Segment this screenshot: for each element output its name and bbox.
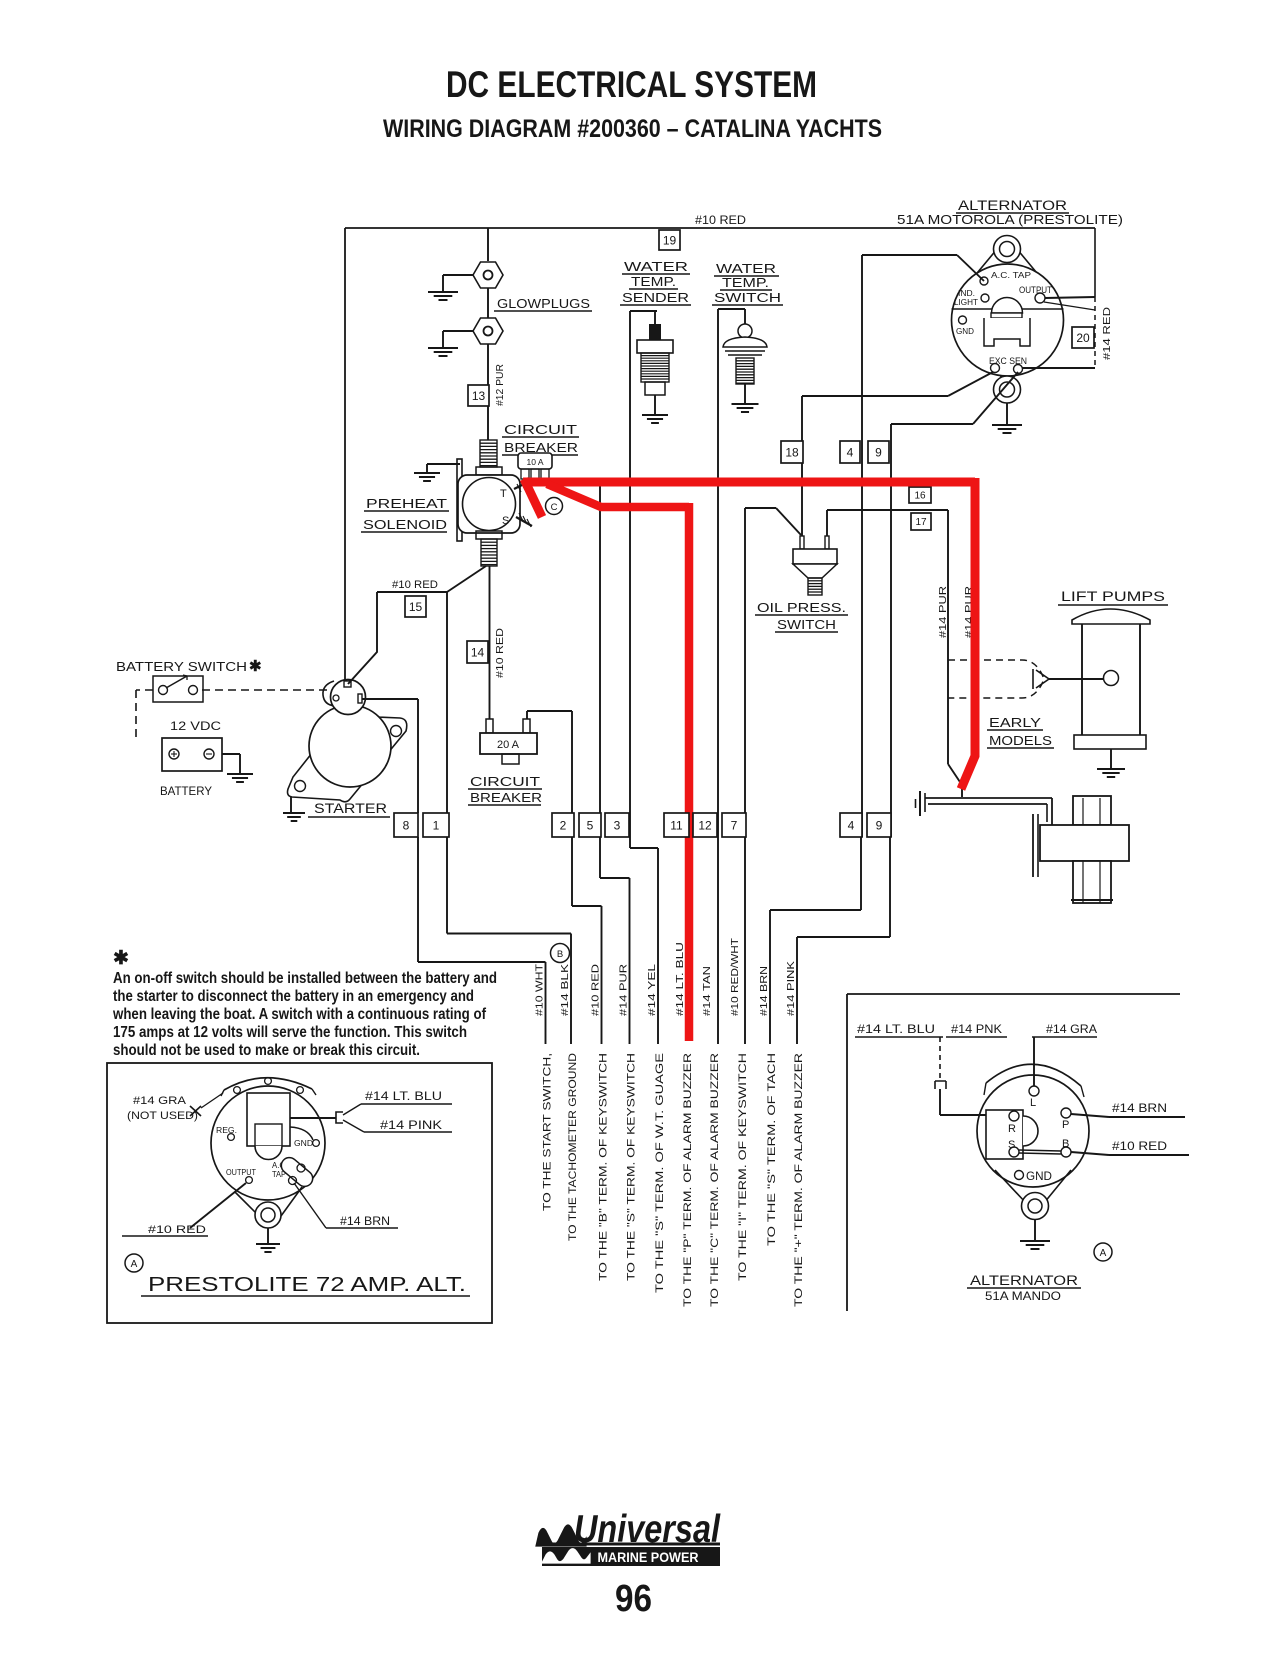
svg-text:#14 RED: #14 RED [1101, 306, 1113, 360]
svg-text:20 A: 20 A [497, 739, 520, 751]
svg-text:SOLENOID: SOLENOID [363, 517, 447, 532]
svg-text:#14 GRA: #14 GRA [133, 1095, 187, 1107]
svg-text:1: 1 [433, 818, 440, 832]
svg-text:GND: GND [1026, 1169, 1052, 1183]
svg-text:3: 3 [614, 818, 621, 832]
svg-text:#10 RED: #10 RED [392, 579, 438, 591]
svg-text:#10 RED: #10 RED [1112, 1139, 1167, 1153]
svg-text:TO THE "S" TERM. OF W.T. GUAGE: TO THE "S" TERM. OF W.T. GUAGE [654, 1053, 666, 1293]
svg-text:4: 4 [847, 445, 854, 459]
svg-text:S: S [502, 515, 509, 527]
svg-text:PRESTOLITE 72 AMP. ALT.: PRESTOLITE 72 AMP. ALT. [148, 1274, 466, 1296]
svg-text:OIL PRESS.: OIL PRESS. [757, 600, 846, 615]
svg-text:LIGHT: LIGHT [954, 298, 978, 307]
svg-text:ALTERNATOR: ALTERNATOR [970, 1273, 1078, 1288]
svg-text:the starter to disconnect the: the starter to disconnect the battery in… [113, 988, 474, 1005]
svg-text:TEMP.: TEMP. [722, 275, 769, 290]
svg-text:51A MOTOROLA (PRESTOLITE): 51A MOTOROLA (PRESTOLITE) [897, 213, 1123, 227]
svg-text:#14 BRN: #14 BRN [758, 966, 770, 1016]
svg-text:#12 PUR: #12 PUR [494, 364, 506, 406]
svg-text:#14 PNK: #14 PNK [951, 1022, 1002, 1036]
svg-text:#10 RED: #10 RED [590, 963, 602, 1016]
svg-text:✱: ✱ [113, 948, 129, 969]
svg-text:TO THE "I" TERM. OF KEYSWITCH: TO THE "I" TERM. OF KEYSWITCH [737, 1053, 749, 1281]
svg-text:SWITCH: SWITCH [714, 290, 781, 305]
svg-text:B: B [557, 949, 563, 960]
svg-text:#14 BRN: #14 BRN [1112, 1101, 1167, 1115]
svg-text:10 A: 10 A [526, 457, 543, 467]
svg-text:OUTPUT: OUTPUT [226, 1167, 256, 1177]
svg-text:13: 13 [472, 389, 486, 403]
svg-text:11: 11 [670, 818, 683, 832]
svg-text:GND: GND [294, 1138, 313, 1148]
svg-text:TO THE "B" TERM. OF KEYSWITCH: TO THE "B" TERM. OF KEYSWITCH [598, 1053, 610, 1281]
svg-text:S: S [1008, 1139, 1015, 1151]
svg-text:LIFT PUMPS: LIFT PUMPS [1061, 589, 1165, 604]
svg-text:A: A [1100, 1248, 1107, 1259]
svg-text:P: P [1062, 1119, 1069, 1131]
svg-text:14: 14 [471, 645, 485, 659]
svg-text:#14 YEL: #14 YEL [646, 964, 658, 1016]
svg-text:DC ELECTRICAL SYSTEM: DC ELECTRICAL SYSTEM [446, 64, 817, 105]
svg-text:9: 9 [875, 445, 882, 459]
svg-text:CIRCUIT: CIRCUIT [470, 774, 540, 789]
svg-text:REG.: REG. [216, 1125, 237, 1135]
svg-text:4: 4 [848, 818, 855, 832]
svg-text:2: 2 [560, 818, 567, 832]
svg-text:20: 20 [1076, 331, 1090, 345]
svg-text:7: 7 [731, 818, 738, 832]
svg-text:TO THE "+" TERM. OF ALARM BUZZ: TO THE "+" TERM. OF ALARM BUZZER [793, 1053, 805, 1307]
svg-text:EARLY: EARLY [989, 715, 1041, 730]
svg-text:TO THE START SWITCH,: TO THE START SWITCH, [542, 1053, 554, 1211]
svg-text:OUTPUT: OUTPUT [1019, 285, 1052, 295]
svg-text:EXC SEN: EXC SEN [989, 356, 1027, 366]
svg-text:#14 TAN: #14 TAN [701, 966, 713, 1016]
svg-text:12: 12 [698, 818, 712, 832]
svg-text:when leaving the boat. A switc: when leaving the boat. A switch with a c… [112, 1006, 487, 1023]
svg-text:9: 9 [876, 818, 883, 832]
svg-text:15: 15 [409, 600, 423, 614]
svg-text:ALTERNATOR: ALTERNATOR [958, 198, 1067, 213]
svg-text:19: 19 [663, 233, 677, 247]
svg-text:WATER: WATER [624, 259, 688, 274]
svg-text:18: 18 [785, 445, 799, 459]
svg-text:#14 BRN: #14 BRN [340, 1214, 390, 1228]
svg-text:SWITCH: SWITCH [777, 617, 836, 632]
svg-text:GLOWPLUGS: GLOWPLUGS [497, 296, 590, 311]
svg-text:B: B [1062, 1138, 1069, 1150]
svg-text:WIRING DIAGRAM #200360 – CATAL: WIRING DIAGRAM #200360 – CATALINA YACHTS [383, 115, 882, 143]
svg-text:#14 PINK: #14 PINK [380, 1118, 442, 1132]
svg-text:#14 LT. BLU: #14 LT. BLU [365, 1089, 442, 1103]
svg-text:GND: GND [956, 326, 974, 336]
svg-text:L: L [1030, 1097, 1036, 1109]
svg-text:#14 LT. BLU: #14 LT. BLU [857, 1022, 935, 1036]
svg-text:#10 RED: #10 RED [148, 1224, 206, 1236]
svg-text:#10 RED/WHT: #10 RED/WHT [729, 937, 741, 1016]
svg-text:TO THE "S" TERM. OF TACH: TO THE "S" TERM. OF TACH [766, 1053, 778, 1246]
svg-text:Universal: Universal [574, 1508, 721, 1551]
svg-text:#14 BLK: #14 BLK [559, 964, 571, 1016]
svg-text:TEMP.: TEMP. [631, 274, 676, 289]
svg-text:An on-off switch should be ins: An on-off switch should be installed bet… [113, 970, 497, 987]
svg-text:R: R [1008, 1123, 1016, 1135]
svg-text:TO THE TACHOMETER GROUND: TO THE TACHOMETER GROUND [567, 1053, 579, 1241]
svg-text:✱: ✱ [249, 658, 262, 675]
svg-text:BATTERY SWITCH: BATTERY SWITCH [116, 659, 247, 674]
svg-text:PREHEAT: PREHEAT [366, 496, 447, 511]
svg-text:175 amps at 12 volts will serv: 175 amps at 12 volts will serve the func… [113, 1024, 467, 1041]
svg-text:BREAKER: BREAKER [470, 790, 542, 805]
svg-text:STARTER: STARTER [314, 800, 387, 816]
svg-text:BATTERY: BATTERY [160, 784, 212, 798]
svg-text:#10 WHT: #10 WHT [534, 963, 546, 1016]
svg-text:TO THE "S" TERM. OF KEYSWITCH: TO THE "S" TERM. OF KEYSWITCH [626, 1053, 638, 1281]
svg-text:17: 17 [915, 517, 927, 528]
svg-text:CIRCUIT: CIRCUIT [504, 422, 577, 437]
svg-text:SENDER: SENDER [622, 290, 689, 305]
svg-text:should not be used to make or: should not be used to make or break this… [113, 1042, 420, 1059]
svg-text:#14 GRA: #14 GRA [1046, 1022, 1097, 1036]
svg-text:96: 96 [615, 1578, 652, 1620]
svg-text:#14 PUR: #14 PUR [618, 963, 630, 1016]
svg-text:MARINE POWER: MARINE POWER [598, 1550, 699, 1565]
svg-text:#14 PUR: #14 PUR [937, 585, 949, 638]
svg-text:TO THE "C" TERM. OF ALARM BUZZ: TO THE "C" TERM. OF ALARM BUZZER [709, 1053, 721, 1307]
svg-text:51A MANDO: 51A MANDO [985, 1289, 1061, 1303]
svg-text:#10 RED: #10 RED [695, 215, 746, 227]
svg-text:T: T [500, 488, 507, 500]
svg-text:16: 16 [914, 491, 926, 502]
svg-text:8: 8 [403, 818, 410, 832]
svg-text:#14 LT. BLU: #14 LT. BLU [674, 942, 686, 1016]
svg-text:5: 5 [587, 818, 594, 832]
svg-text:#10 RED: #10 RED [494, 628, 506, 678]
svg-text:IND.: IND. [958, 289, 975, 298]
svg-text:MODELS: MODELS [989, 733, 1052, 748]
svg-text:A: A [131, 1259, 138, 1270]
svg-text:WATER: WATER [716, 261, 776, 276]
svg-text:#14 PINK: #14 PINK [785, 961, 797, 1016]
svg-text:(NOT USED): (NOT USED) [127, 1110, 198, 1122]
svg-text:A.C. TAP: A.C. TAP [991, 270, 1031, 280]
svg-text:C: C [551, 502, 558, 513]
svg-text:12 VDC: 12 VDC [170, 719, 221, 733]
svg-text:TO THE "P" TERM. OF ALARM BUZZ: TO THE "P" TERM. OF ALARM BUZZER [682, 1053, 694, 1307]
